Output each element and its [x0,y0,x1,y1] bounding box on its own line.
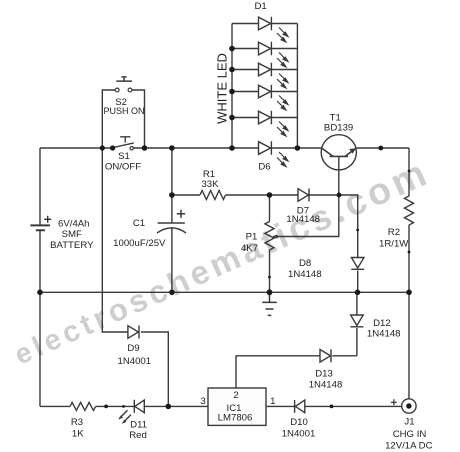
wire left rail [39,148,41,406]
node C1 top [169,145,175,151]
connector J1 outer [402,399,416,413]
node emitter row [378,146,383,151]
LED D3 [232,63,297,76]
switch S1 handle [120,137,130,143]
wire R3/IC row [40,405,402,407]
svg-text:1N4001: 1N4001 [282,429,316,440]
node LED rail row5 [229,115,235,121]
label J1 + [391,399,397,405]
svg-text:1N4001: 1N4001 [117,356,151,367]
resistor R2 [405,196,414,225]
svg-text:CHG IN: CHG IN [393,429,427,440]
potentiometer P1 wiper arrow [274,236,279,238]
wire middle vertical to D9 [102,148,128,332]
svg-text:BATTERY: BATTERY [50,240,94,251]
wire D13 row [236,356,357,388]
potentiometer P1 [265,222,274,251]
ground symbol [262,292,277,315]
LED emission arrows rows [277,28,288,167]
LED D1 [232,17,297,30]
svg-text:1N4148: 1N4148 [288,269,322,280]
diode D13 [320,349,331,362]
svg-text:1N4148: 1N4148 [286,214,320,225]
switch S1 lever [113,143,134,148]
wire P1 column [269,195,271,292]
wire D9 to R3 row [141,332,168,406]
svg-text:1000uF/25V: 1000uF/25V [113,238,166,249]
svg-text:BD139: BD139 [324,123,353,134]
svg-text:PUSH ON: PUSH ON [103,106,144,116]
node D10 pin [330,405,334,409]
battery B1 [30,225,50,230]
T1 emitter arrowhead [349,148,356,153]
IC1 box [208,388,266,425]
svg-text:ON/OFF: ON/OFF [105,162,141,173]
node LED rail row3 [229,67,235,73]
svg-text:1N4148: 1N4148 [367,329,401,340]
svg-text:D11: D11 [130,419,147,430]
capacitor C1 [157,223,186,233]
label C1 + [177,210,185,218]
wire D8 to bottom rail [357,271,359,293]
svg-text:D1: D1 [254,1,266,12]
P1 wiper arrowhead [272,234,277,238]
svg-text:SMF: SMF [62,229,82,240]
wire transistor base and wiper [274,156,339,236]
switch S2 contact circles [115,88,119,92]
svg-text:1: 1 [270,396,275,407]
wire LED left rail [231,24,233,149]
svg-text:D10: D10 [290,417,308,428]
node P1 bottom pin [268,276,271,279]
LED D11 arrows [120,410,132,422]
diode D10 [295,400,305,413]
svg-text:1R/1W: 1R/1W [379,238,409,249]
node D11 pin [122,405,125,408]
LED D5 [232,111,297,124]
svg-text:R3: R3 [71,417,83,428]
node R2 top pin [408,170,411,173]
svg-text:J1: J1 [404,416,414,427]
svg-text:D13: D13 [315,369,333,380]
wire emitter to R2 column [408,148,410,399]
node LED rail row4 [229,89,235,95]
diode D8 [351,258,364,270]
svg-text:R2: R2 [388,227,400,238]
resistor R3 [70,402,96,410]
node R3 pin [104,405,108,409]
D11 arrowheads [118,148,356,424]
svg-text:12V/1A DC: 12V/1A DC [385,440,433,451]
svg-text:D9: D9 [127,343,139,354]
node D8 top pin [356,229,359,232]
wire main top row y=148 [40,147,409,149]
wire D12 column [356,292,358,356]
svg-text:S1: S1 [118,151,130,162]
LED D2 [232,42,297,55]
node P1 top [267,192,273,198]
svg-text:1N4148: 1N4148 [309,380,343,391]
node S2 left [100,145,105,150]
connector J1 center [406,403,411,408]
node rail left [37,290,43,296]
diode D7 [298,189,309,202]
node LED left rail bottom [229,145,235,151]
diode D12 [350,315,363,327]
node rail C1 [169,290,175,296]
svg-text:D6: D6 [258,162,270,173]
node C1/R1 row [169,192,175,198]
label battery + [44,216,51,223]
svg-text:D8: D8 [299,258,311,269]
svg-text:WHITE LED: WHITE LED [214,53,229,124]
svg-text:P1: P1 [246,232,258,243]
wire bottom rail [40,291,409,293]
svg-text:D12: D12 [373,318,391,329]
node LED rail row2 [229,46,235,52]
svg-text:3: 3 [200,396,205,407]
node base/D7 row [337,193,342,198]
svg-text:LM7806: LM7806 [218,413,253,424]
node rail ground [267,289,273,295]
svg-text:1K: 1K [72,429,84,440]
svg-text:6V/4Ah: 6V/4Ah [58,219,89,230]
diode D9 [128,326,139,339]
svg-text:33K: 33K [201,179,219,190]
node LED right rail bottom [295,145,301,151]
transistor T1 internals [322,149,355,157]
node rail D8 [355,290,361,296]
LED D4 [232,85,297,98]
transistor T1 circle [321,135,356,170]
svg-text:4K7: 4K7 [241,243,258,254]
switch S1 contact circle [130,147,133,150]
wire S2 branch [102,90,144,148]
LED D6 [259,141,272,154]
switch S2 contact circle right [128,88,132,92]
svg-text:C1: C1 [133,218,145,229]
wire LED right rail [296,24,298,149]
node S2 right [142,145,148,151]
wire R1/D7 row [172,195,358,258]
node R2 bottom pin [408,251,411,254]
svg-text:Red: Red [129,430,147,441]
node rail R2 [406,290,412,296]
resistor R1 [200,191,226,200]
svg-text:2: 2 [233,390,238,401]
switch S2 actuator [116,77,132,81]
LED D11 [134,400,144,413]
LED group D1-D6 with rails [232,17,297,155]
node S1 contact [110,145,115,150]
node D9/R3 row [166,404,172,410]
wire C1 column [171,148,173,292]
